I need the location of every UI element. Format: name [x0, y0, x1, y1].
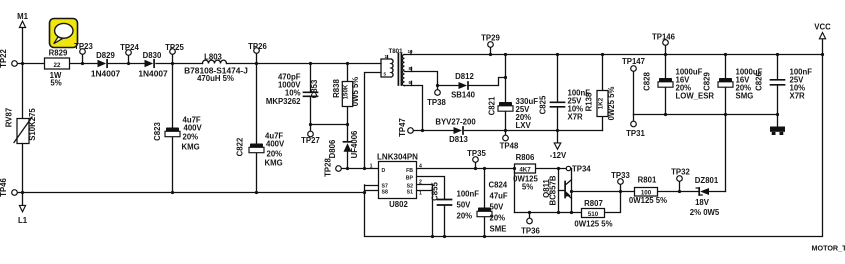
svg-text:TP29: TP29: [481, 34, 500, 43]
svg-text:LXV: LXV: [516, 121, 532, 130]
svg-text:KMG: KMG: [182, 143, 200, 152]
svg-text:TP28: TP28: [324, 158, 333, 177]
testpoint TP33: [618, 179, 624, 185]
svg-text:C853: C853: [310, 79, 319, 98]
svg-text:C855: C855: [431, 182, 440, 201]
svg-text:DZ801: DZ801: [695, 176, 719, 185]
testpoint TP48: [503, 135, 509, 141]
svg-text:0W125 5%: 0W125 5%: [574, 220, 612, 229]
wire C853 branch: [311, 64, 348, 132]
wire TP146 stub: [665, 46, 667, 55]
svg-text:TP33: TP33: [611, 171, 630, 180]
svg-text:20%: 20%: [490, 214, 506, 223]
resistor R138: [597, 91, 608, 117]
wire D806 to drain line: [347, 152, 349, 169]
testpoint TP32: [677, 176, 683, 182]
svg-text:TP146: TP146: [652, 33, 676, 42]
wire minus12V line: [414, 130, 603, 132]
svg-text:TP46: TP46: [0, 178, 8, 197]
svg-text:TP31: TP31: [626, 129, 645, 138]
arrow VCC: [819, 33, 825, 39]
transistor Q2 base lead: [559, 190, 565, 192]
svg-text:C824: C824: [489, 181, 508, 190]
svg-text:TP32: TP32: [671, 168, 690, 177]
wire VCC stub and right edge: [365, 39, 823, 237]
svg-text:SME: SME: [490, 225, 507, 234]
svg-text:D806: D806: [328, 139, 337, 158]
svg-text:1: 1: [419, 191, 422, 197]
wire C823 branch: [172, 64, 174, 193]
ground symbol: [770, 127, 785, 132]
svg-text:1: 1: [370, 164, 373, 170]
testpoint TP146: [663, 40, 669, 46]
diode D830: [145, 60, 154, 67]
wire C828 branch: [665, 55, 667, 115]
wire L1 stub: [22, 193, 24, 206]
capacitor C824: [478, 208, 491, 212]
svg-text:TP24: TP24: [120, 43, 139, 52]
svg-text:S10K275: S10K275: [28, 108, 37, 141]
transformer T801 core: [398, 54, 401, 86]
svg-text:5%: 5%: [522, 183, 533, 192]
resistor R807: [582, 209, 605, 218]
svg-text:TP147: TP147: [622, 57, 645, 66]
svg-text:400V: 400V: [184, 124, 203, 133]
svg-text:20%: 20%: [183, 133, 199, 142]
svg-text:R801: R801: [638, 176, 657, 185]
wire TP35 stub: [475, 162, 477, 168]
svg-text:8: 8: [409, 66, 412, 71]
svg-text:0W125 5%: 0W125 5%: [629, 196, 667, 205]
svg-text:LNK304PN: LNK304PN: [377, 153, 418, 162]
wire D812 line: [438, 78, 506, 86]
diode D812: [459, 82, 468, 89]
svg-text:MKP3262: MKP3262: [266, 97, 301, 106]
testpoint TP23: [80, 49, 86, 55]
svg-text:20%: 20%: [267, 150, 283, 159]
svg-text:L1: L1: [18, 216, 28, 225]
wire TP31 stub: [633, 115, 635, 122]
capacitor C821: [499, 102, 512, 106]
svg-text:C821: C821: [488, 96, 497, 115]
svg-text:T801: T801: [388, 48, 403, 55]
wire C826 branch: [777, 55, 779, 115]
wire TP33 stub: [620, 185, 622, 192]
wire C821 branch: [505, 55, 507, 131]
svg-text:TP26: TP26: [248, 42, 267, 51]
capacitor C825: [551, 102, 565, 107]
svg-text:MOTOR_TI: MOTOR_TI: [812, 244, 845, 253]
svg-text:2: 2: [419, 180, 422, 186]
transistor Q2 base bar: [564, 182, 566, 198]
svg-text:U802: U802: [389, 200, 408, 209]
svg-text:5: 5: [384, 72, 387, 77]
svg-text:UF4006: UF4006: [350, 130, 359, 158]
testpoint TP46: [12, 190, 18, 196]
svg-text:C826: C826: [755, 72, 764, 91]
wire S2 stub: [417, 184, 433, 186]
testpoint TP29: [488, 42, 494, 48]
svg-text:5%: 5%: [50, 79, 61, 88]
testpoint TP26: [254, 48, 260, 54]
resistor R806: [515, 164, 536, 173]
wire TP36 stub: [529, 213, 531, 219]
svg-text:50V: 50V: [490, 203, 505, 212]
capacitor C826: [771, 80, 785, 85]
svg-text:2% 0W5: 2% 0W5: [690, 208, 720, 217]
resistor R829: [45, 58, 70, 69]
transformer T801 primary winding: [381, 56, 393, 78]
svg-text:R806: R806: [516, 153, 535, 162]
wire TP24 stub: [128, 56, 130, 64]
svg-text:TP25: TP25: [165, 43, 184, 52]
transistor Q2 collector diagonal: [565, 180, 571, 185]
capacitor C828: [659, 78, 672, 82]
wire zener to ground branch: [709, 191, 726, 193]
svg-text:0W5 5%: 0W5 5%: [351, 77, 360, 107]
svg-text:150K: 150K: [343, 84, 350, 99]
capacitor C823: [166, 128, 179, 132]
svg-text:50V: 50V: [457, 201, 472, 210]
svg-text:4: 4: [419, 164, 422, 170]
svg-text:TP34: TP34: [572, 165, 591, 174]
svg-text:BYV27-200: BYV27-200: [435, 118, 476, 127]
svg-text:C825: C825: [539, 95, 548, 114]
svg-text:TP35: TP35: [467, 149, 486, 158]
testpoint TP28: [336, 166, 342, 172]
wire R838 branch: [347, 64, 349, 142]
wire TP38 stub: [437, 86, 439, 90]
svg-text:100nF: 100nF: [457, 190, 480, 199]
svg-text:470uH 5%: 470uH 5%: [197, 74, 234, 83]
wire TP28 drain line: [341, 168, 378, 170]
testpoint TP34: [566, 166, 570, 170]
svg-text:D830: D830: [143, 51, 162, 60]
wire bottom rail: [17, 192, 364, 194]
testpoint TP24: [126, 50, 132, 56]
wire ground line: [634, 114, 778, 116]
svg-text:X7R: X7R: [790, 92, 806, 101]
wire C829 branch and zener return: [725, 55, 727, 192]
svg-text:C829: C829: [703, 72, 712, 91]
svg-text:0W25 5%: 0W25 5%: [607, 87, 616, 121]
testpoint TP22: [12, 61, 18, 67]
wire S7 S8 stubs: [365, 185, 379, 193]
svg-text:1: 1: [385, 54, 388, 59]
arrow minus12V: [554, 143, 561, 149]
svg-text:S1: S1: [407, 190, 413, 196]
svg-text:TP38: TP38: [427, 98, 446, 107]
wire TP32 stub: [679, 182, 681, 192]
wire collector emitter vertical: [571, 169, 573, 213]
svg-text:TP48: TP48: [500, 142, 519, 151]
wire C822 branch: [256, 64, 258, 193]
svg-text:400V: 400V: [266, 140, 285, 149]
svg-text:D812: D812: [455, 72, 474, 81]
diode D813: [454, 127, 463, 134]
arrow M1: [19, 21, 25, 27]
svg-text:18V: 18V: [695, 198, 710, 207]
svg-text:C828: C828: [643, 72, 652, 91]
resistor R801: [635, 188, 658, 197]
svg-text:1N4007: 1N4007: [138, 69, 168, 79]
wire TP29 stub: [490, 48, 492, 55]
wire AC input top rail: [17, 63, 381, 65]
wire secondary middle tap: [405, 72, 438, 86]
testpoint TP35: [473, 157, 479, 163]
svg-text:D813: D813: [449, 135, 468, 144]
wire TP33 R801 line: [572, 191, 699, 193]
svg-text:X7R: X7R: [568, 113, 584, 122]
svg-text:TP23: TP23: [74, 42, 93, 51]
yellow note icon: [50, 19, 78, 48]
wire R807 line: [515, 192, 621, 213]
svg-text:TP36: TP36: [521, 227, 540, 236]
wire BP line to C855: [417, 177, 445, 237]
svg-text:M1: M1: [17, 12, 28, 21]
svg-text:RV87: RV87: [5, 108, 14, 127]
svg-text:R829: R829: [49, 49, 68, 58]
wire minus12V marker stub: [557, 131, 559, 143]
svg-text:BC857B: BC857B: [549, 175, 558, 205]
wire TP48 stub: [505, 131, 507, 136]
svg-text:D829: D829: [96, 51, 115, 60]
testpoint TP27: [308, 131, 314, 137]
svg-text:LOW_ESR: LOW_ESR: [676, 92, 715, 101]
wire TP23 stub: [82, 55, 84, 64]
wire base node down: [558, 169, 560, 213]
svg-text:TP27: TP27: [301, 136, 320, 145]
capacitor C829: [719, 78, 732, 82]
wire ground stub: [777, 115, 779, 127]
svg-text:6: 6: [409, 80, 412, 85]
wire R138 branch: [602, 55, 604, 131]
svg-text:BP: BP: [406, 176, 414, 182]
svg-text:C822: C822: [236, 137, 245, 156]
testpoint TP25: [170, 49, 176, 55]
svg-text:L803: L803: [204, 53, 222, 62]
svg-text:1K2: 1K2: [598, 97, 605, 109]
inductor L803: [203, 60, 227, 63]
svg-text:SMG: SMG: [736, 92, 754, 101]
svg-text:R807: R807: [584, 199, 603, 208]
svg-text:VCC: VCC: [814, 23, 831, 32]
svg-text:510: 510: [588, 211, 599, 218]
wire M1 drop to rail: [22, 28, 24, 64]
testpoint TP147: [631, 66, 637, 72]
svg-text:TP22: TP22: [0, 49, 8, 68]
IC U802 body: [379, 162, 417, 199]
svg-text:S8: S8: [382, 190, 388, 196]
wire rail to RV87 top: [22, 64, 24, 119]
zener diode DZ801: [700, 188, 709, 195]
wire TP25 stub: [172, 55, 174, 64]
varistor RV87: [17, 119, 29, 144]
svg-text:KMG: KMG: [265, 159, 283, 168]
transformer T801 secondary winding: [402, 55, 404, 86]
svg-text:47uF: 47uF: [490, 192, 508, 201]
resistor R838: [342, 82, 353, 107]
svg-text:FB: FB: [406, 168, 413, 174]
testpoint TP38: [435, 90, 441, 96]
svg-text:C823: C823: [153, 122, 162, 141]
wire secondary top rail VCC: [405, 54, 823, 56]
capacitor C855: [438, 200, 452, 206]
svg-text:SB140: SB140: [451, 91, 476, 100]
wire FB node down: [514, 169, 516, 213]
diode D829: [98, 60, 107, 67]
svg-text:4K7: 4K7: [519, 166, 531, 173]
svg-text:-12V: -12V: [550, 151, 567, 160]
svg-text:D: D: [382, 168, 386, 174]
wire secondary bottom tap: [405, 86, 423, 131]
wire FB line: [417, 168, 572, 170]
wire TP26 stub: [256, 54, 258, 64]
wire C824 branch: [484, 169, 486, 237]
wire TP147 stub: [633, 72, 635, 115]
wire primary bottom lead: [365, 73, 382, 169]
diode D806: [344, 141, 352, 143]
capacitor C822: [250, 144, 263, 148]
svg-text:20%: 20%: [457, 212, 473, 221]
arrow L1: [19, 205, 25, 211]
transistor Q2 emitter diagonal with arrow: [565, 193, 571, 198]
svg-text:R138: R138: [585, 92, 594, 111]
testpoint TP47: [408, 128, 414, 134]
testpoint TP36: [527, 218, 533, 224]
svg-text:10: 10: [408, 49, 414, 54]
wire S1 stub: [417, 185, 433, 237]
wire C825 branch: [557, 55, 559, 131]
capacitor C853: [304, 92, 318, 96]
transformer T801 pin ticks: [410, 51, 413, 86]
svg-text:1N4007: 1N4007: [91, 69, 121, 79]
wire RV87 bottom to bottom rail: [22, 144, 24, 193]
svg-text:TP47: TP47: [398, 118, 407, 137]
svg-text:R838: R838: [332, 79, 341, 98]
testpoint TP31: [631, 121, 637, 127]
svg-text:22: 22: [54, 62, 61, 69]
